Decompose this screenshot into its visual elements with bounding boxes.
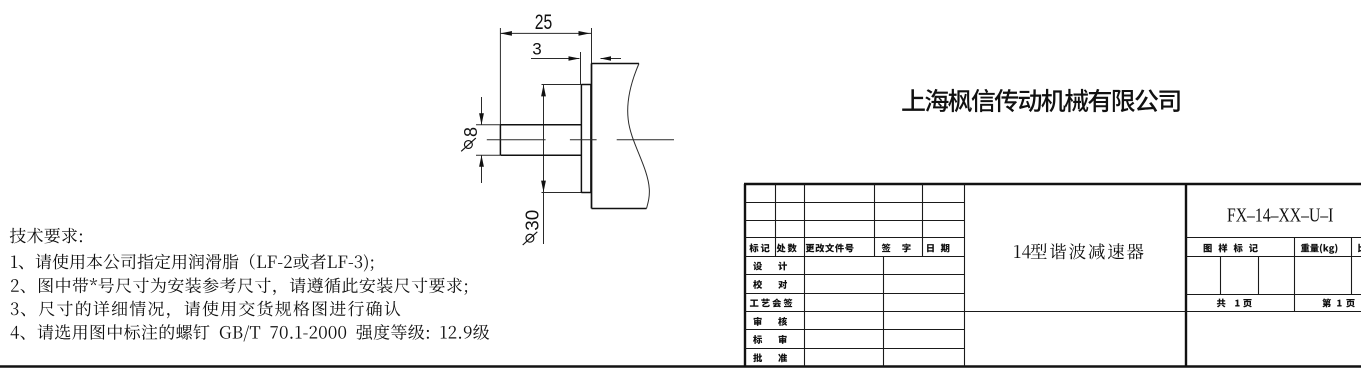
centerline	[487, 139, 674, 141]
label 批准	[753, 353, 787, 362]
svg-text:25: 25	[535, 11, 553, 34]
dimension text phi30 (rotated)	[523, 210, 543, 245]
label 设计	[753, 262, 787, 271]
dimension phi30: vertical dimension line with arrows and ticks	[542, 85, 591, 245]
label 标审	[753, 335, 787, 344]
label 更改文件号	[806, 243, 854, 252]
svg-text:3: 3	[532, 40, 541, 59]
dimension phi8: vertical dimension with arrows and ticks	[476, 97, 500, 183]
label 处数	[777, 244, 797, 253]
dimension text phi8 (rotated)	[461, 127, 481, 151]
label 第1页	[1322, 298, 1355, 307]
drawing number FX-14-XX-U-I	[1227, 204, 1333, 226]
title block outer border	[744, 184, 1361, 367]
title block grid lines	[745, 184, 1361, 367]
company name	[902, 89, 1179, 112]
shaft outline (phi8 shaft)	[500, 125, 581, 156]
label 日期	[927, 244, 949, 253]
label 共1页	[1217, 299, 1252, 308]
part name 14型谐波减速器	[1014, 243, 1143, 259]
label 标记	[749, 244, 769, 253]
svg-text:8: 8	[461, 127, 481, 137]
dimension 3: dimension line with outside arrows	[531, 52, 621, 85]
label 审核	[754, 317, 788, 326]
label 图样标记	[1204, 243, 1258, 252]
label 工艺会签	[750, 298, 793, 307]
technical requirements heading	[10, 228, 82, 244]
label 签字	[882, 243, 911, 252]
technical requirements line 3	[11, 301, 401, 319]
technical requirements line 4	[11, 324, 490, 341]
technical requirements line 2	[11, 277, 467, 295]
label 重量(kg)	[1301, 244, 1338, 254]
label 校对	[753, 280, 787, 289]
flange outline (phi30 flange)	[581, 85, 591, 193]
body outline with break line	[592, 64, 650, 209]
svg-text:30: 30	[523, 210, 543, 231]
label partial right column	[1358, 244, 1361, 253]
technical requirements line 1	[11, 254, 373, 272]
svg-text:FX–14–XX–U–I: FX–14–XX–U–I	[1227, 204, 1333, 226]
sheet bottom border	[0, 365, 1361, 367]
dimension 25: dimension line with arrows and extension lines	[500, 28, 591, 125]
